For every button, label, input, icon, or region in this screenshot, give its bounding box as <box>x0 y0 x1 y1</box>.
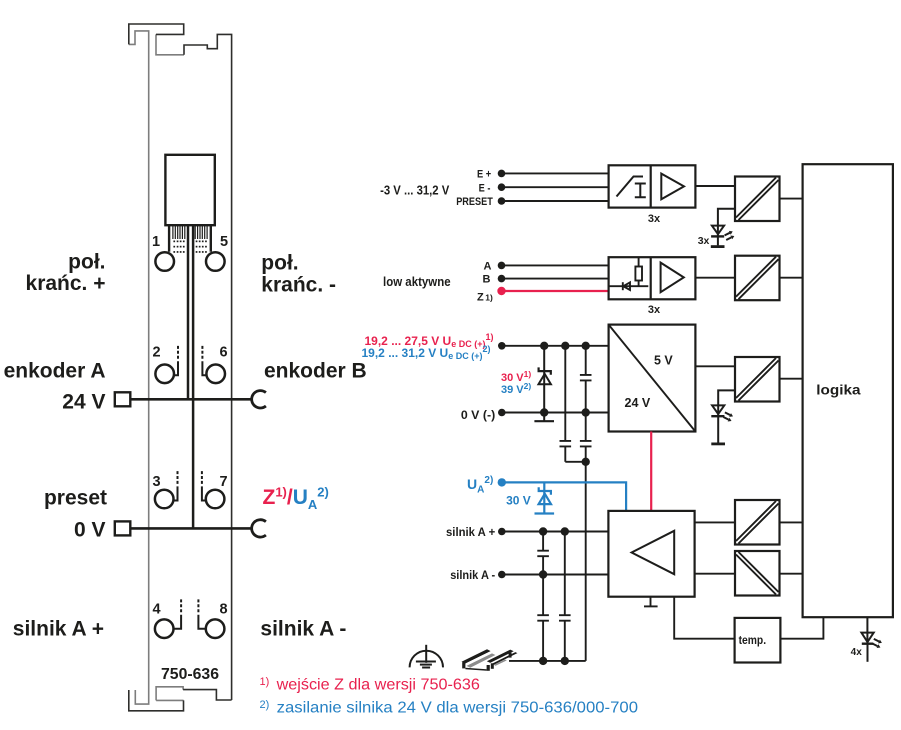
svg-text:750-636: 750-636 <box>161 666 219 683</box>
svg-text:0 V (-): 0 V (-) <box>461 410 495 422</box>
svg-text:2): 2) <box>260 699 270 711</box>
svg-text:UA2): UA2) <box>467 475 493 496</box>
svg-text:4: 4 <box>153 602 161 618</box>
svg-text:3x: 3x <box>698 235 710 247</box>
svg-text:0 V: 0 V <box>74 519 106 542</box>
svg-text:-3 V ... 31,2 V: -3 V ... 31,2 V <box>380 184 450 198</box>
svg-text:3x: 3x <box>648 304 661 316</box>
svg-text:enkoder A: enkoder A <box>4 360 106 383</box>
svg-text:24 V: 24 V <box>62 391 105 414</box>
svg-text:24 V: 24 V <box>625 396 651 410</box>
svg-text:wejście Z dla wersji 750-636: wejście Z dla wersji 750-636 <box>276 677 480 694</box>
svg-text:A: A <box>484 260 492 272</box>
svg-text:poł.: poł. <box>68 251 105 274</box>
svg-text:Z1)/UA2): Z1)/UA2) <box>263 485 329 513</box>
svg-text:low aktywne: low aktywne <box>383 275 451 289</box>
svg-text:39 V2): 39 V2) <box>501 381 531 396</box>
svg-text:krańc. +: krańc. + <box>26 272 106 295</box>
svg-text:krańc. -: krańc. - <box>261 273 336 296</box>
svg-text:5 V: 5 V <box>654 353 673 367</box>
svg-text:1): 1) <box>260 676 270 688</box>
svg-text:silnik A -: silnik A - <box>260 617 346 640</box>
svg-text:enkoder B: enkoder B <box>264 360 367 383</box>
svg-text:7: 7 <box>219 474 227 490</box>
svg-text:zasilanie silnika 24 V dla wer: zasilanie silnika 24 V dla wersji 750-63… <box>277 700 639 717</box>
svg-text:30 V: 30 V <box>506 494 531 508</box>
svg-text:E -: E - <box>479 182 491 194</box>
svg-text:PRESET: PRESET <box>456 196 493 208</box>
svg-text:6: 6 <box>219 344 227 360</box>
svg-text:poł.: poł. <box>261 252 298 275</box>
svg-text:silnik A +: silnik A + <box>446 527 495 539</box>
svg-text:B: B <box>483 274 491 286</box>
svg-text:Z: Z <box>477 291 484 303</box>
svg-text:logika: logika <box>816 382 861 397</box>
svg-text:5: 5 <box>220 234 228 250</box>
svg-text:preset: preset <box>44 487 107 510</box>
svg-text:silnik A +: silnik A + <box>13 617 104 640</box>
svg-text:3: 3 <box>153 474 161 490</box>
svg-text:3x: 3x <box>648 213 661 225</box>
svg-text:E +: E + <box>477 168 491 180</box>
svg-text:8: 8 <box>219 602 227 618</box>
svg-text:1: 1 <box>152 234 160 250</box>
svg-text:1): 1) <box>485 292 493 302</box>
svg-text:4x: 4x <box>851 647 863 658</box>
svg-text:silnik A -: silnik A - <box>450 570 495 582</box>
svg-text:2: 2 <box>153 344 161 360</box>
svg-text:temp.: temp. <box>739 635 767 647</box>
